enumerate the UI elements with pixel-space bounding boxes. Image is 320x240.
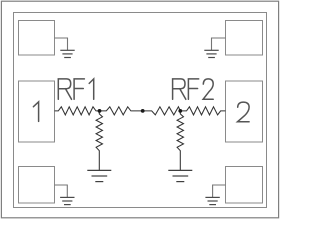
node B junction dot <box>178 109 182 113</box>
pad port 1 <box>19 81 55 142</box>
label 2 (port 2) <box>238 102 250 122</box>
ground (node B) <box>168 170 192 181</box>
wire pad TR to ground <box>212 38 226 50</box>
pad top-right <box>226 21 263 56</box>
label RF1 <box>58 79 93 99</box>
ground (top-right pad) <box>204 50 218 57</box>
pad port 2 <box>226 81 263 142</box>
resistor R4 (node B to port2) <box>180 107 225 115</box>
wire pad BR to ground <box>213 185 226 197</box>
pad bottom-right <box>226 167 263 204</box>
ground (bottom-right pad) <box>205 197 219 204</box>
shunt resistor (node B to ground) <box>177 111 183 170</box>
ground (bottom-left pad) <box>60 197 74 204</box>
node A junction dot <box>98 109 102 113</box>
package outline <box>14 13 267 208</box>
resistor R3 (center to node B) <box>143 107 181 115</box>
pad top-left <box>19 21 55 56</box>
wire pad BL to ground <box>55 185 68 197</box>
pad bottom-left <box>19 167 55 204</box>
label 1 (port 1) <box>33 102 38 122</box>
node center junction dot <box>141 109 145 113</box>
resistor R2 (node A to center) <box>99 107 142 115</box>
label RF2 <box>173 79 214 99</box>
ground (top-left pad) <box>60 50 74 57</box>
ground (node A) <box>87 170 111 181</box>
wire pad TL to ground <box>55 38 68 50</box>
shunt resistor (node A to ground) <box>96 111 102 170</box>
resistor R1 (port1 to node A) <box>55 107 100 115</box>
border frame <box>1 1 278 218</box>
